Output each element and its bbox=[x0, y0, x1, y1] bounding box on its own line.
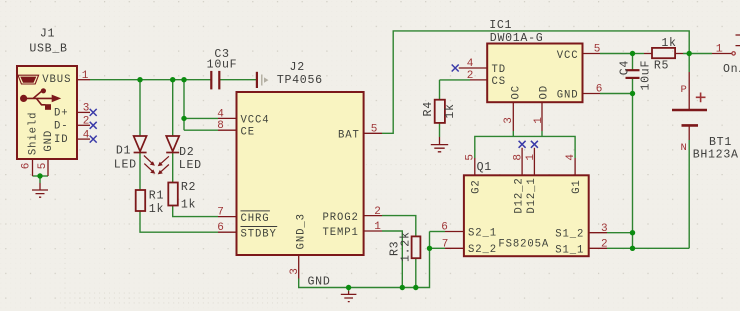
svg-text:5: 5 bbox=[465, 154, 477, 161]
svg-text:1k: 1k bbox=[661, 37, 676, 50]
svg-text:G2: G2 bbox=[471, 179, 483, 194]
svg-text:OC: OC bbox=[511, 85, 523, 100]
svg-text:6: 6 bbox=[217, 222, 224, 234]
svg-text:1: 1 bbox=[533, 117, 545, 124]
svg-text:R2: R2 bbox=[181, 181, 196, 194]
svg-text:STDBY: STDBY bbox=[241, 228, 277, 240]
svg-text:3: 3 bbox=[503, 117, 515, 124]
svg-text:TP4056: TP4056 bbox=[277, 74, 323, 87]
svg-text:D12_1: D12_1 bbox=[526, 177, 538, 213]
svg-text:1k: 1k bbox=[149, 203, 164, 216]
svg-text:D1: D1 bbox=[116, 144, 131, 157]
svg-text:Shield: Shield bbox=[28, 112, 40, 156]
svg-text:4: 4 bbox=[467, 58, 474, 70]
svg-text:CS: CS bbox=[492, 76, 507, 88]
svg-text:J2: J2 bbox=[290, 61, 305, 74]
svg-text:1k: 1k bbox=[444, 103, 457, 118]
svg-text:1.2k: 1.2k bbox=[400, 231, 413, 262]
svg-text:TEMP1: TEMP1 bbox=[323, 227, 359, 239]
svg-text:10uF: 10uF bbox=[640, 60, 653, 91]
svg-text:4: 4 bbox=[565, 154, 577, 161]
svg-text:FS8205A: FS8205A bbox=[498, 238, 549, 250]
svg-text:6: 6 bbox=[441, 222, 448, 234]
svg-text:8: 8 bbox=[217, 120, 224, 132]
svg-text:2: 2 bbox=[374, 206, 381, 218]
svg-text:VBUS: VBUS bbox=[42, 74, 71, 86]
svg-text:GND: GND bbox=[43, 130, 55, 152]
svg-text:DW01A-G: DW01A-G bbox=[490, 32, 544, 45]
svg-text:3: 3 bbox=[601, 223, 608, 235]
svg-text:S1_1: S1_1 bbox=[555, 244, 584, 256]
svg-text:D2: D2 bbox=[179, 146, 194, 159]
svg-text:Q1: Q1 bbox=[477, 161, 492, 174]
svg-text:D-: D- bbox=[54, 120, 69, 132]
svg-text:CE: CE bbox=[241, 126, 256, 138]
svg-text:GND: GND bbox=[557, 90, 579, 102]
svg-text:LED: LED bbox=[114, 159, 137, 172]
svg-text:S2_1: S2_1 bbox=[468, 228, 497, 240]
svg-text:S1_2: S1_2 bbox=[555, 229, 584, 241]
svg-text:G1: G1 bbox=[571, 179, 583, 194]
svg-text:USB_B: USB_B bbox=[29, 43, 67, 56]
svg-text:2: 2 bbox=[83, 116, 90, 128]
svg-text:R1: R1 bbox=[149, 189, 164, 202]
svg-text:D12_2: D12_2 bbox=[513, 177, 525, 213]
svg-text:7: 7 bbox=[217, 207, 224, 219]
svg-text:GND_3: GND_3 bbox=[296, 213, 308, 249]
svg-text:CHRG: CHRG bbox=[241, 213, 270, 225]
svg-text:BH123A: BH123A bbox=[693, 148, 739, 161]
svg-text:4: 4 bbox=[217, 108, 224, 120]
svg-text:1: 1 bbox=[716, 44, 723, 56]
svg-text:TD: TD bbox=[492, 64, 507, 76]
svg-text:4: 4 bbox=[83, 129, 90, 141]
svg-text:IC1: IC1 bbox=[489, 19, 512, 32]
svg-text:5: 5 bbox=[594, 44, 601, 56]
svg-text:6: 6 bbox=[596, 84, 603, 96]
svg-text:8: 8 bbox=[513, 154, 525, 161]
svg-text:3: 3 bbox=[83, 103, 90, 115]
svg-text:10uF: 10uF bbox=[207, 58, 238, 71]
svg-text:OD: OD bbox=[539, 85, 551, 100]
svg-text:VCC4: VCC4 bbox=[241, 115, 270, 127]
svg-text:GND: GND bbox=[308, 276, 331, 289]
svg-text:3: 3 bbox=[289, 268, 301, 275]
svg-text:S2_2: S2_2 bbox=[468, 244, 497, 256]
svg-text:J1: J1 bbox=[40, 28, 55, 41]
svg-text:2: 2 bbox=[467, 70, 474, 82]
svg-text:ID: ID bbox=[54, 134, 69, 146]
svg-text:2: 2 bbox=[601, 239, 608, 251]
svg-text:LED: LED bbox=[179, 159, 202, 172]
svg-text:BAT: BAT bbox=[338, 130, 360, 142]
svg-text:1: 1 bbox=[82, 70, 89, 82]
svg-text:7: 7 bbox=[442, 238, 449, 250]
svg-text:N: N bbox=[681, 142, 687, 154]
svg-text:C4: C4 bbox=[619, 60, 632, 75]
svg-text:5: 5 bbox=[37, 163, 49, 170]
svg-text:VCC: VCC bbox=[557, 50, 579, 62]
svg-text:R5: R5 bbox=[654, 60, 669, 73]
svg-text:1: 1 bbox=[374, 221, 381, 233]
svg-text:PROG2: PROG2 bbox=[323, 212, 359, 224]
svg-text:1: 1 bbox=[525, 154, 537, 161]
svg-text:6: 6 bbox=[20, 163, 32, 170]
svg-text:On/: On/ bbox=[723, 63, 740, 76]
svg-text:5: 5 bbox=[371, 124, 378, 136]
svg-text:BT1: BT1 bbox=[709, 136, 732, 149]
svg-text:1k: 1k bbox=[181, 198, 196, 211]
svg-text:D+: D+ bbox=[54, 107, 69, 119]
svg-text:P: P bbox=[681, 84, 687, 96]
svg-text:R4: R4 bbox=[422, 101, 435, 116]
